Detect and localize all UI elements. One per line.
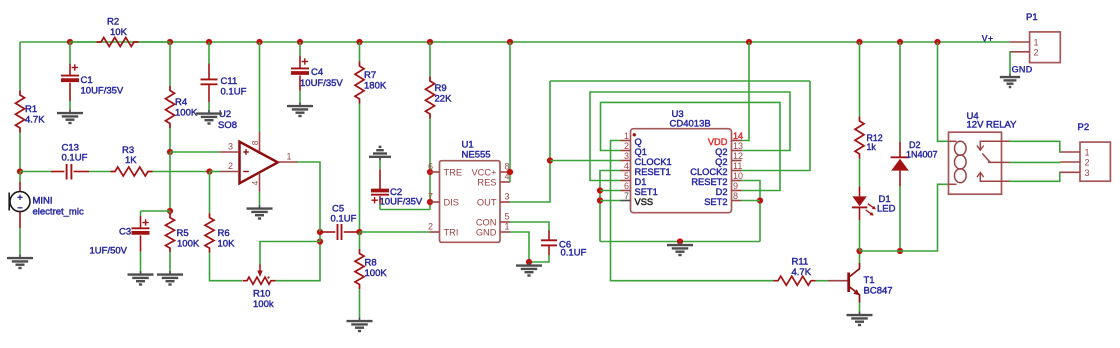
- node VCC junction: [507, 169, 513, 175]
- wire R10 right to op-amp out column: [276, 242, 321, 281]
- wire CD4013 pin4 RESET1 down: [600, 171, 621, 242]
- svg-text:0.1UF: 0.1UF: [221, 87, 247, 98]
- node 555 ground junction: [526, 259, 532, 265]
- svg-text:VCC+: VCC+: [471, 168, 496, 178]
- svg-text:5: 5: [624, 171, 629, 181]
- wire D2 to collector node: [899, 186, 901, 251]
- node CD4013 ground junction: [677, 238, 683, 244]
- svg-text:R8: R8: [365, 258, 377, 269]
- svg-text:R4: R4: [175, 97, 187, 108]
- node D2 bottom junction: [897, 248, 903, 254]
- svg-text:D1: D1: [635, 177, 647, 187]
- wire VSS to column: [600, 200, 621, 202]
- wire op-amp out to C5 column: [298, 162, 321, 232]
- P2 pin 1 stub: [1061, 148, 1090, 158]
- svg-text:Q: Q: [635, 137, 642, 147]
- svg-text:SET1: SET1: [635, 187, 658, 197]
- ground under R5: [157, 271, 183, 285]
- NE555 pin 7 DIS stub: [428, 192, 459, 208]
- svg-text:RESET2: RESET2: [691, 177, 727, 187]
- ground under op-amp: [247, 205, 273, 219]
- wire node to op-amp pin2: [210, 171, 221, 173]
- ground under CD4013: [667, 242, 693, 256]
- svg-text:3: 3: [228, 142, 233, 152]
- svg-text:2: 2: [624, 141, 629, 151]
- svg-text:RESET1: RESET1: [635, 167, 671, 177]
- wire R5 to ground: [169, 252, 171, 271]
- svg-text:1N4007: 1N4007: [906, 150, 938, 160]
- svg-text:10K: 10K: [110, 27, 128, 38]
- wire V+ top rail: [20, 41, 1010, 43]
- svg-text:7: 7: [624, 191, 629, 201]
- resistor R1: [16, 91, 46, 133]
- svg-text:13: 13: [733, 141, 743, 151]
- relay coil: [949, 141, 967, 184]
- svg-text:4.7K: 4.7K: [792, 267, 812, 278]
- wire rail to C11: [208, 42, 210, 64]
- connector P1 box: [1026, 12, 1060, 63]
- NE555 pin 2 TRI stub: [428, 222, 459, 238]
- wire CLOCK1 to CD4013 pin3: [550, 160, 621, 162]
- node CLOCK1 junction: [547, 157, 553, 163]
- svg-text:VDD: VDD: [708, 137, 728, 147]
- capacitor C2: [371, 169, 423, 207]
- wire bias node to R5: [169, 211, 171, 214]
- resistor R7: [355, 62, 387, 104]
- svg-text:1k: 1k: [867, 142, 877, 152]
- P2 pin 2 stub: [1061, 158, 1090, 168]
- svg-text:electret_mic: electret_mic: [33, 207, 84, 218]
- relay U4 12V RELAY box: [949, 111, 1018, 194]
- svg-text:DIS: DIS: [444, 198, 460, 208]
- svg-text:8: 8: [733, 191, 738, 201]
- svg-text:OUT: OUT: [477, 198, 497, 208]
- svg-text:R10: R10: [253, 289, 270, 300]
- svg-text:12: 12: [733, 151, 743, 161]
- svg-text:C1: C1: [81, 75, 93, 86]
- wire clock rect right leg to CLOCK2: [742, 81, 811, 171]
- op-amp U2 triangle: [240, 142, 278, 184]
- svg-text:180K: 180K: [364, 81, 387, 92]
- IC U1 NE555 box: [440, 140, 501, 243]
- wire mic to ground: [19, 228, 21, 255]
- svg-text:CD4013B: CD4013B: [670, 119, 711, 130]
- wire 555 OUT to clock node: [510, 81, 550, 202]
- svg-text:10UF/35V: 10UF/35V: [300, 78, 343, 89]
- wire R8 to ground: [359, 289, 361, 318]
- svg-text:100K: 100K: [177, 239, 200, 250]
- svg-text:2: 2: [228, 161, 233, 171]
- wire R3 to op-amp pin2 node: [153, 171, 210, 173]
- svg-text:6: 6: [624, 181, 629, 191]
- svg-text:C11: C11: [221, 76, 238, 87]
- CD4013 pin 10 RESET2 stub: [691, 171, 743, 187]
- wire rail to D2: [899, 42, 901, 142]
- svg-text:R9: R9: [435, 83, 447, 94]
- svg-text:CON: CON: [476, 218, 497, 228]
- connector P2 box: [1078, 122, 1111, 181]
- svg-text:1UF/50V: 1UF/50V: [90, 246, 128, 257]
- svg-text:R7: R7: [364, 70, 376, 81]
- NE555 pin 6 TRE stub: [428, 162, 462, 178]
- svg-text:8: 8: [250, 140, 260, 145]
- wire 555 GND to ground node: [510, 232, 529, 262]
- resistor R12: [855, 117, 883, 159]
- ground under 555: [516, 262, 542, 276]
- svg-text:Q2: Q2: [715, 157, 727, 167]
- svg-text:2: 2: [1085, 158, 1090, 168]
- svg-text:22K: 22K: [435, 94, 453, 105]
- NE555 pin 1 GND stub: [476, 222, 510, 238]
- wire rail to relay coil: [938, 42, 949, 141]
- svg-text:R6: R6: [218, 228, 230, 239]
- P2 pin 3 stub: [1061, 168, 1090, 178]
- wire CD4013 ground rail: [600, 241, 760, 243]
- CD4013 pin 6 SET1 stub: [621, 181, 658, 197]
- svg-text:Q2: Q2: [715, 147, 727, 157]
- CD4013 pin 13 Q2 stub: [715, 141, 743, 157]
- svg-text:D2: D2: [909, 140, 921, 150]
- node op-amp pin2/R6 junction: [206, 168, 212, 174]
- svg-text:100K: 100K: [365, 268, 388, 279]
- wire pin2 node to R6: [209, 172, 211, 214]
- node SET1 junction: [597, 187, 603, 193]
- svg-text:2: 2: [428, 222, 433, 232]
- wire C13 to R3: [89, 171, 111, 173]
- wire D1 to collector node: [859, 220, 861, 251]
- node VSS junction: [597, 197, 603, 203]
- op-amp pin 1 stub: [278, 152, 298, 163]
- wire wiper node up to C5 node: [319, 232, 321, 242]
- relay contact common blade: [982, 154, 1009, 163]
- CD4013 pin 14 VDD stub: [708, 131, 743, 147]
- wire op-amp pin3 from R4 node: [170, 151, 220, 153]
- svg-text:10K: 10K: [218, 239, 236, 250]
- wire SET1 to column: [600, 190, 621, 192]
- IC U3 CD4013B box: [631, 109, 732, 213]
- ground under C3: [128, 271, 154, 285]
- capacitor C1: [61, 64, 124, 101]
- svg-text:1: 1: [505, 222, 510, 232]
- node C3/R5 bias junction: [167, 208, 173, 214]
- svg-text:9: 9: [733, 181, 738, 191]
- svg-text:MINI: MINI: [33, 196, 53, 207]
- node junction dots on V+ rail: [67, 39, 941, 45]
- svg-text:0.1UF: 0.1UF: [331, 214, 357, 225]
- resistor R4: [166, 86, 198, 128]
- node SET2 junction: [757, 197, 763, 203]
- wire C11 to ground: [208, 102, 210, 110]
- svg-text:P2: P2: [1078, 122, 1090, 133]
- wire rail to R7: [359, 42, 361, 62]
- svg-text:7: 7: [428, 192, 433, 202]
- capacitor C6: [541, 231, 587, 259]
- P1 pin 2 stub: [1011, 47, 1039, 57]
- svg-text:GND: GND: [476, 228, 497, 238]
- svg-text:100K: 100K: [175, 108, 198, 119]
- svg-text:R5: R5: [177, 228, 189, 239]
- wire C5 node to 555 TRI: [360, 231, 430, 233]
- svg-text:10: 10: [733, 171, 743, 181]
- wire ground to C2: [379, 160, 381, 169]
- wire CD4013 pin1 Q to R11: [611, 141, 774, 281]
- node T1 collector junction: [856, 248, 862, 254]
- NE555 pin 4 RES stub: [477, 172, 510, 188]
- wire mic node to C13: [20, 171, 51, 173]
- NE555 pin 3 OUT stub: [477, 192, 510, 208]
- svg-text:R2: R2: [107, 17, 119, 28]
- label V+: [982, 33, 994, 44]
- CD4013 pin 12 Q2 stub: [715, 151, 743, 167]
- capacitor C4: [291, 56, 343, 91]
- svg-text:1: 1: [287, 152, 292, 162]
- wire rail to R9: [429, 42, 431, 77]
- wire R10 wiper to node: [260, 242, 320, 265]
- CD4013 pin 4 RESET1 stub: [621, 161, 671, 177]
- wire node to mic: [19, 172, 21, 183]
- resistor R9: [426, 77, 453, 119]
- svg-text:2: 2: [1034, 47, 1039, 57]
- op-amp U2 labels: [218, 109, 237, 131]
- wire T1 emitter to ground: [859, 303, 861, 312]
- trimpot R10: [243, 264, 276, 310]
- ground under R8: [347, 318, 373, 332]
- svg-text:0.1UF: 0.1UF: [561, 248, 587, 259]
- wire pin3 node down to bias node: [169, 152, 171, 211]
- svg-text:D2: D2: [716, 187, 728, 197]
- ground under C4: [287, 103, 313, 117]
- svg-text:TRE: TRE: [444, 168, 463, 178]
- wire DIS column to C2: [380, 209, 430, 211]
- svg-text:LED: LED: [877, 204, 896, 215]
- svg-text:T1: T1: [864, 275, 875, 286]
- op-amp pin 4 power pin: [250, 173, 260, 192]
- wire R12 to D1: [859, 159, 861, 187]
- wire R11 to T1 base: [816, 280, 829, 282]
- wire rail to R4: [169, 42, 171, 86]
- CD4013 pin 9 D2 stub: [716, 181, 742, 197]
- resistor R5: [166, 213, 200, 253]
- svg-text:V+: V+: [982, 33, 994, 44]
- node TRI/C5/R8 junction: [356, 229, 362, 235]
- node DIS junction: [427, 199, 433, 205]
- svg-text:3: 3: [1085, 168, 1090, 178]
- CD4013 pin 3 CLOCK1 stub: [621, 151, 672, 167]
- node C5 left junction: [317, 229, 323, 235]
- wire bias node to C3: [141, 211, 171, 216]
- relay contact NO: [977, 141, 1010, 150]
- wire C4 to ground: [299, 91, 301, 103]
- wire T1 collector to node: [859, 251, 861, 263]
- resistor R3: [111, 145, 153, 176]
- node R10 wiper junction: [317, 238, 323, 244]
- svg-text:100k: 100k: [253, 299, 274, 310]
- wire TRI node to R8: [359, 232, 361, 249]
- wire C2 to DIS wire: [379, 204, 381, 210]
- capacitor C13: [51, 143, 89, 180]
- svg-text:RES: RES: [477, 178, 496, 188]
- svg-text:1: 1: [1085, 148, 1090, 158]
- wire relay NC to P2 pin3: [1010, 172, 1061, 181]
- wire rail to VCC/RES: [509, 42, 511, 182]
- wire R1 to mic node: [19, 133, 21, 172]
- svg-text:10UF/35V: 10UF/35V: [380, 197, 423, 208]
- capacitor C3: [90, 216, 150, 257]
- svg-text:3: 3: [624, 151, 629, 161]
- resistor R2: [97, 17, 139, 47]
- wire rail to C4: [299, 42, 301, 56]
- svg-text:SO8: SO8: [218, 120, 237, 131]
- wire SET2 to column: [742, 200, 761, 202]
- wire CD4013 pin14 VDD to rail: [742, 42, 750, 141]
- wire R4 to op-amp pin3 node: [169, 128, 171, 152]
- ground under mic: [7, 255, 33, 269]
- wire R6 to R10 left: [210, 253, 243, 281]
- ground under C11: [196, 110, 222, 124]
- NE555 pin 5 CON stub: [476, 212, 510, 228]
- svg-text:5: 5: [505, 212, 510, 222]
- wire CD4013 pins10+8 column: [742, 181, 761, 242]
- svg-text:Q1: Q1: [635, 147, 647, 157]
- relay contact NC: [977, 172, 1010, 181]
- microphone MINI electret_mic: [9, 182, 84, 228]
- svg-text:14: 14: [733, 131, 743, 141]
- CD4013 pin 2 Q1 stub: [621, 141, 647, 157]
- wire C1 to ground: [69, 101, 71, 110]
- wire rail to R1: [19, 42, 21, 91]
- CD4013 pin 5 D1 stub: [621, 171, 647, 187]
- transistor T1 BC847: [828, 263, 893, 303]
- svg-text:P1: P1: [1026, 12, 1038, 23]
- wire rail to R12: [859, 42, 861, 117]
- node op-amp pin3 junction: [167, 149, 173, 155]
- resistor R6: [205, 213, 235, 253]
- wire collector node to relay: [860, 184, 949, 251]
- label GND: [1012, 64, 1033, 75]
- wire CD4013 pin2 Q1 up rect: [601, 102, 781, 190]
- svg-text:C3: C3: [119, 227, 131, 238]
- node TRE junction: [427, 169, 433, 175]
- svg-text:11: 11: [733, 161, 742, 171]
- CD4013 pin 11 CLOCK2 stub: [690, 161, 742, 177]
- wire R2 to R4 node: [139, 41, 171, 43]
- capacitor C11: [201, 64, 247, 103]
- svg-text:4: 4: [250, 181, 260, 186]
- resistor R11: [774, 257, 816, 286]
- op-amp pin 3 stub: [220, 142, 240, 153]
- svg-text:C4: C4: [311, 67, 323, 78]
- wire R9 to TRE/DIS: [429, 119, 431, 210]
- wire C1 node to R2: [70, 41, 97, 43]
- wire clock rect top: [550, 80, 810, 82]
- wire op-amp pin4 to ground: [259, 192, 261, 206]
- wire relay NO to P2 pin1: [1010, 141, 1061, 152]
- svg-text:1K: 1K: [125, 155, 137, 166]
- wire 555 CON to C6: [510, 222, 549, 231]
- svg-text:1: 1: [624, 131, 629, 141]
- capacitor C5: [320, 204, 360, 241]
- svg-text:0.1UF: 0.1UF: [62, 153, 88, 164]
- svg-text:NE555: NE555: [462, 150, 491, 161]
- wire C3 to ground: [140, 252, 142, 271]
- svg-text:TRI: TRI: [444, 228, 459, 238]
- svg-text:12V RELAY: 12V RELAY: [967, 120, 1018, 131]
- NE555 pin 8 VCC stub: [471, 162, 510, 178]
- ground under T1: [847, 312, 873, 326]
- CD4013 pin 1 Q stub: [621, 131, 642, 147]
- CD4013 pin 8 SET2 stub: [704, 191, 741, 207]
- svg-text:R11: R11: [792, 257, 809, 268]
- svg-text:R1: R1: [25, 104, 37, 115]
- wire P1 pin2 to ground: [1009, 52, 1012, 74]
- wire R7 to TRI node: [359, 104, 361, 233]
- wire rail to C1: [69, 42, 71, 64]
- wire relay COM to P2 pin2: [1010, 161, 1061, 163]
- CD4013 pin 7 VSS stub: [621, 191, 654, 207]
- svg-text:CLOCK1: CLOCK1: [635, 157, 672, 167]
- ground under C1: [57, 110, 83, 124]
- wire C6 bottom to ground node: [529, 255, 549, 262]
- svg-text:1: 1: [1034, 38, 1039, 48]
- ground above C2 flipped: [369, 147, 391, 161]
- wire rail to op-amp pin8: [259, 42, 261, 132]
- ground under P1: [1000, 74, 1020, 88]
- svg-text:SET2: SET2: [704, 197, 727, 207]
- resistor R8: [355, 249, 387, 289]
- node mic/C13/R1 junction: [17, 168, 23, 174]
- svg-text:4: 4: [624, 161, 629, 171]
- svg-text:GND: GND: [1012, 64, 1033, 75]
- svg-text:VSS: VSS: [635, 197, 654, 207]
- diode D2 1N4007: [891, 140, 938, 186]
- svg-text:3: 3: [505, 192, 510, 202]
- P1 pin 1 stub: [1010, 38, 1039, 48]
- op-amp pin 2 stub: [220, 161, 240, 172]
- svg-text:BC847: BC847: [864, 286, 893, 297]
- LED D1: [852, 187, 896, 221]
- svg-text:CLOCK2: CLOCK2: [690, 167, 727, 177]
- op-amp U2 power pin 8: [250, 132, 260, 153]
- svg-text:10UF/35V: 10UF/35V: [81, 86, 124, 97]
- svg-text:4.7K: 4.7K: [25, 115, 45, 126]
- svg-text:6: 6: [428, 162, 433, 172]
- wire CD4013 pin5 D1 up rect: [590, 92, 790, 181]
